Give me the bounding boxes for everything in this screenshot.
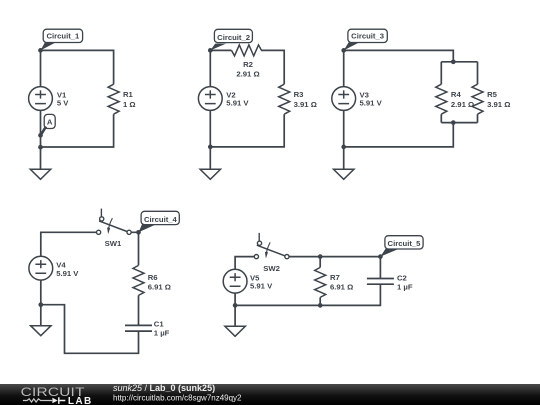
- svg-text:LAB: LAB: [68, 396, 93, 405]
- svg-text:3.91 Ω: 3.91 Ω: [487, 100, 510, 109]
- svg-text:Circuit_5: Circuit_5: [388, 239, 422, 248]
- svg-text:SW1: SW1: [105, 239, 122, 248]
- svg-text:C1: C1: [154, 319, 165, 328]
- svg-text:2.91 Ω: 2.91 Ω: [451, 100, 474, 109]
- svg-text:5.91 V: 5.91 V: [226, 99, 249, 108]
- svg-text:Circuit_3: Circuit_3: [351, 32, 384, 41]
- svg-text:C2: C2: [397, 273, 407, 282]
- svg-text:http://circuitlab.com/c8sgw7nz: http://circuitlab.com/c8sgw7nz49qy2: [113, 394, 242, 403]
- svg-text:3.91 Ω: 3.91 Ω: [294, 100, 317, 109]
- svg-text:A: A: [47, 117, 53, 126]
- svg-text:R5: R5: [487, 90, 498, 99]
- svg-text:sunk25 / Lab_0 (sunk25): sunk25 / Lab_0 (sunk25): [113, 383, 215, 393]
- svg-text:R6: R6: [148, 273, 158, 282]
- svg-text:R1: R1: [123, 90, 134, 99]
- svg-text:5 V: 5 V: [57, 99, 69, 108]
- svg-text:2.91 Ω: 2.91 Ω: [236, 69, 259, 78]
- svg-text:R2: R2: [243, 60, 253, 69]
- svg-text:5.91 V: 5.91 V: [56, 269, 79, 278]
- svg-text:Circuit_2: Circuit_2: [217, 33, 250, 42]
- svg-text:1 µF: 1 µF: [397, 283, 413, 292]
- svg-text:1 µF: 1 µF: [154, 328, 170, 337]
- svg-text:5.91 V: 5.91 V: [250, 282, 273, 291]
- svg-text:Circuit_4: Circuit_4: [144, 215, 178, 224]
- svg-text:Circuit_1: Circuit_1: [46, 32, 80, 41]
- svg-text:1 Ω: 1 Ω: [123, 100, 136, 109]
- svg-text:6.91 Ω: 6.91 Ω: [330, 283, 353, 292]
- svg-text:SW2: SW2: [263, 264, 280, 273]
- svg-text:5.91 V: 5.91 V: [360, 99, 383, 108]
- svg-text:6.91 Ω: 6.91 Ω: [148, 283, 171, 292]
- svg-text:R7: R7: [330, 273, 340, 282]
- svg-text:R4: R4: [451, 90, 462, 99]
- svg-text:R3: R3: [294, 90, 304, 99]
